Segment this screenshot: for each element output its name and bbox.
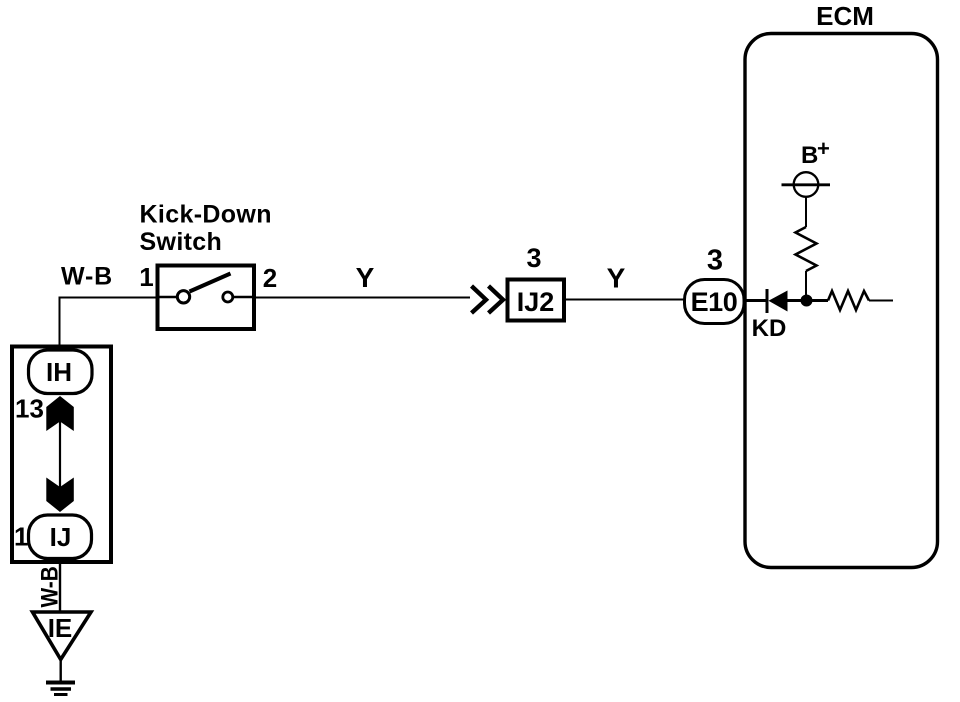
svg-text:IJ: IJ [50, 522, 72, 552]
svg-text:2: 2 [263, 263, 277, 293]
svg-text:IJ2: IJ2 [517, 287, 555, 317]
svg-text:Kick-Down: Kick-Down [140, 201, 272, 229]
svg-text:IE: IE [48, 613, 73, 643]
svg-text:3: 3 [707, 245, 723, 277]
svg-text:KD: KD [752, 315, 787, 342]
svg-text:13: 13 [15, 394, 44, 424]
svg-text:Y: Y [607, 263, 626, 294]
svg-text:W-B: W-B [36, 566, 63, 607]
svg-text:Y: Y [356, 262, 375, 293]
svg-text:E10: E10 [691, 287, 738, 317]
svg-text:+: + [817, 136, 830, 161]
svg-text:B: B [801, 142, 818, 169]
svg-text:Switch: Switch [140, 228, 223, 256]
svg-text:3: 3 [526, 243, 541, 273]
svg-text:IH: IH [46, 357, 72, 387]
svg-text:1: 1 [14, 522, 28, 552]
svg-text:W-B: W-B [61, 263, 113, 291]
svg-text:ECM: ECM [816, 1, 874, 31]
svg-text:1: 1 [139, 262, 153, 292]
